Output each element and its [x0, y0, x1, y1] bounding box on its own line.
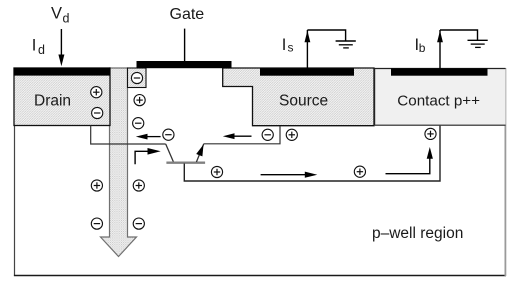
svg-text:p–well region: p–well region: [372, 225, 463, 242]
hole flow L arrow into contact: [386, 147, 433, 174]
hole symbol below base: [211, 166, 222, 177]
collector slant: [166, 144, 174, 163]
electron symbol right of column (lower): [133, 218, 144, 229]
svg-text:s: s: [288, 41, 294, 55]
wire drain to collector: [91, 126, 166, 145]
gate electrode: [137, 61, 232, 68]
source contact bar: [260, 68, 354, 75]
n+ pocket under gate edge: [128, 68, 147, 88]
electron symbol right of column: [133, 118, 144, 129]
electron symbol: [163, 129, 174, 140]
gate lead wire: [184, 29, 186, 62]
hole symbol near source: [286, 129, 297, 140]
svg-text:Drain: Drain: [34, 93, 71, 110]
hole flow arrow (middle of bottom wire): [261, 172, 318, 178]
svg-text:V: V: [51, 5, 62, 23]
hole symbol left of column: [91, 180, 102, 191]
hole symbol below contact: [425, 128, 436, 139]
svg-text:b: b: [419, 41, 426, 55]
electron symbol near source: [262, 129, 273, 140]
electron symbol in n+ pocket: [131, 72, 142, 83]
svg-text:d: d: [38, 43, 45, 57]
hole symbol right of column (lower): [133, 180, 144, 191]
ground symbol (body): [468, 40, 488, 47]
ground symbol (source): [336, 41, 356, 48]
drain contact bar: [14, 68, 111, 76]
body contact wire to ground: [437, 30, 477, 69]
hole symbol in drain: [91, 87, 102, 98]
svg-text:I: I: [32, 37, 37, 55]
svg-text:Source: Source: [279, 93, 328, 110]
base current L arrow: [135, 148, 161, 164]
svg-text:I: I: [282, 36, 287, 54]
p-well substrate box: [14, 68, 506, 276]
base bar: [166, 161, 205, 163]
hole symbol right of column (upper): [134, 95, 145, 106]
svg-text:d: d: [63, 12, 70, 26]
wire emitter to source: [204, 126, 280, 144]
parasitic bipolar transistor Q1: [166, 144, 205, 163]
electron flow arrow (left, toward column): [136, 134, 161, 140]
source wire to ground: [305, 30, 346, 69]
hole symbol on bottom wire: [354, 166, 365, 177]
contact p++ bar: [391, 68, 488, 75]
depletion column with big downward arrow: [101, 68, 137, 257]
electron flow arrow (from source): [223, 133, 252, 139]
source region: [223, 68, 374, 126]
V_d arrow: [58, 29, 64, 66]
wire base to p-well contact: [184, 126, 440, 181]
drain region: [14, 68, 110, 126]
contact p++ region: [374, 68, 506, 126]
emitter slant with arrowhead: [196, 144, 203, 162]
electron symbol left of column (lower): [91, 218, 102, 229]
svg-text:Gate: Gate: [170, 6, 205, 23]
svg-text:Contact p++: Contact p++: [397, 93, 480, 110]
electron symbol in drain: [92, 107, 103, 118]
